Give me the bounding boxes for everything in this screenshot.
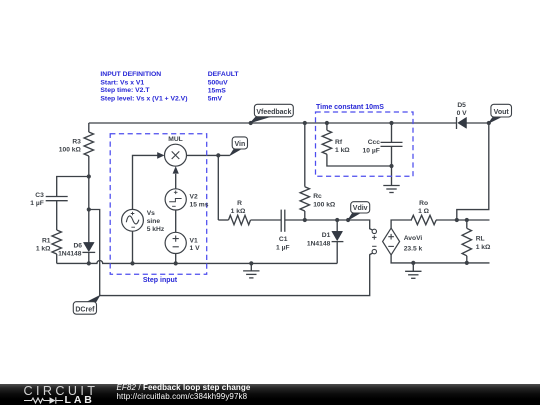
- svg-text:C3: C3: [35, 192, 44, 199]
- svg-text:sine: sine: [147, 218, 161, 225]
- svg-text:Vfeedback: Vfeedback: [256, 109, 291, 116]
- svg-text:23.5 k: 23.5 k: [404, 246, 423, 253]
- svg-text:Start: Vs x V1: Start: Vs x V1: [100, 79, 144, 86]
- svg-text:R1: R1: [42, 238, 51, 245]
- svg-text:100 kΩ: 100 kΩ: [59, 147, 82, 154]
- svg-text:1 kΩ: 1 kΩ: [231, 208, 246, 215]
- svg-text:1 kΩ: 1 kΩ: [476, 244, 491, 251]
- svg-text:10 µF: 10 µF: [363, 147, 380, 154]
- svg-text:INPUT DEFINITION: INPUT DEFINITION: [100, 71, 161, 78]
- svg-text:Step input: Step input: [143, 277, 178, 284]
- svg-text:1N4148: 1N4148: [58, 250, 82, 257]
- svg-text:Vdiv: Vdiv: [353, 205, 368, 212]
- svg-text:DCref: DCref: [75, 306, 95, 313]
- svg-text:0 V: 0 V: [457, 110, 468, 117]
- svg-text:DEFAULT: DEFAULT: [208, 71, 240, 78]
- svg-text:R: R: [237, 200, 242, 207]
- svg-text:Vs: Vs: [147, 210, 155, 217]
- svg-text:500uV: 500uV: [208, 79, 228, 86]
- svg-text:Ccc: Ccc: [368, 139, 381, 146]
- svg-text:1N4148: 1N4148: [307, 240, 331, 247]
- svg-text:Time constant 10mS: Time constant 10mS: [316, 104, 384, 111]
- svg-text:Vin: Vin: [234, 141, 245, 148]
- svg-text:1 kΩ: 1 kΩ: [36, 246, 51, 253]
- svg-text:Ro: Ro: [419, 200, 428, 207]
- svg-text:Step level: Vs x (V1 + V2.V): Step level: Vs x (V1 + V2.V): [100, 96, 187, 103]
- svg-text:AvoVi: AvoVi: [404, 235, 423, 242]
- svg-text:5 kHz: 5 kHz: [147, 226, 165, 233]
- svg-text:C1: C1: [279, 236, 288, 243]
- svg-text:D6: D6: [73, 242, 82, 249]
- svg-text:Rf: Rf: [335, 139, 343, 146]
- svg-text:MUL: MUL: [168, 136, 183, 143]
- svg-text:V2: V2: [190, 194, 198, 201]
- svg-text:15 ms: 15 ms: [190, 201, 209, 208]
- svg-text:1 µF: 1 µF: [276, 244, 290, 251]
- svg-text:D5: D5: [457, 102, 466, 109]
- svg-text:D1: D1: [322, 232, 331, 239]
- svg-text:RL: RL: [476, 236, 485, 243]
- svg-text:Rc: Rc: [313, 193, 322, 200]
- svg-text:V1: V1: [190, 237, 198, 244]
- svg-text:1 kΩ: 1 kΩ: [335, 147, 350, 154]
- svg-text:5mV: 5mV: [208, 96, 223, 103]
- svg-text:100 kΩ: 100 kΩ: [313, 201, 336, 208]
- svg-text:15mS: 15mS: [208, 87, 227, 94]
- svg-text:1 µF: 1 µF: [30, 200, 44, 207]
- svg-text:R3: R3: [72, 139, 81, 146]
- svg-text:Step time: V2.T: Step time: V2.T: [100, 87, 150, 94]
- svg-text:Vout: Vout: [494, 109, 510, 116]
- svg-text:1 V: 1 V: [190, 245, 201, 252]
- svg-text:1 Ω: 1 Ω: [418, 208, 430, 215]
